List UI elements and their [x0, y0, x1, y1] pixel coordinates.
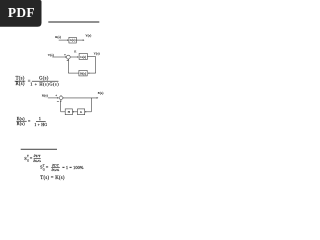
- svg-text:= 1 = 100%: = 1 = 100%: [62, 165, 84, 170]
- svg-text:+: +: [64, 53, 66, 57]
- svg-text:G: G: [27, 159, 29, 163]
- svg-text:G: G: [43, 167, 45, 171]
- svg-text:G(s): G(s): [80, 55, 86, 59]
- svg-text:∂G/G: ∂G/G: [52, 168, 60, 172]
- svg-text:1 + HG: 1 + HG: [34, 123, 47, 127]
- svg-text:E: E: [74, 49, 76, 53]
- svg-text:T(s) = K(s): T(s) = K(s): [40, 176, 65, 181]
- svg-text:T: T: [27, 154, 29, 158]
- svg-text:1: 1: [39, 116, 41, 121]
- svg-text:PDF: PDF: [8, 5, 35, 20]
- svg-text:G(s): G(s): [70, 38, 76, 42]
- svg-text:E(s): E(s): [17, 116, 25, 121]
- svg-text:Y(s): Y(s): [85, 33, 91, 37]
- svg-text:R(s): R(s): [55, 35, 61, 39]
- svg-text:Y(s): Y(s): [94, 51, 101, 55]
- svg-text:∂T/T: ∂T/T: [52, 163, 60, 167]
- svg-text:V(s): V(s): [48, 53, 55, 57]
- svg-text:+: +: [55, 94, 57, 98]
- svg-text:H(s): H(s): [80, 72, 86, 76]
- svg-text:E(s): E(s): [98, 91, 105, 95]
- svg-text:R(s): R(s): [42, 94, 49, 98]
- svg-text:∂T/T: ∂T/T: [34, 154, 42, 158]
- svg-text:∂G/G: ∂G/G: [33, 159, 41, 163]
- svg-text:R(s): R(s): [15, 82, 24, 87]
- svg-text:R(s): R(s): [17, 121, 26, 126]
- svg-text:1 + H(s)G(s): 1 + H(s)G(s): [30, 81, 59, 86]
